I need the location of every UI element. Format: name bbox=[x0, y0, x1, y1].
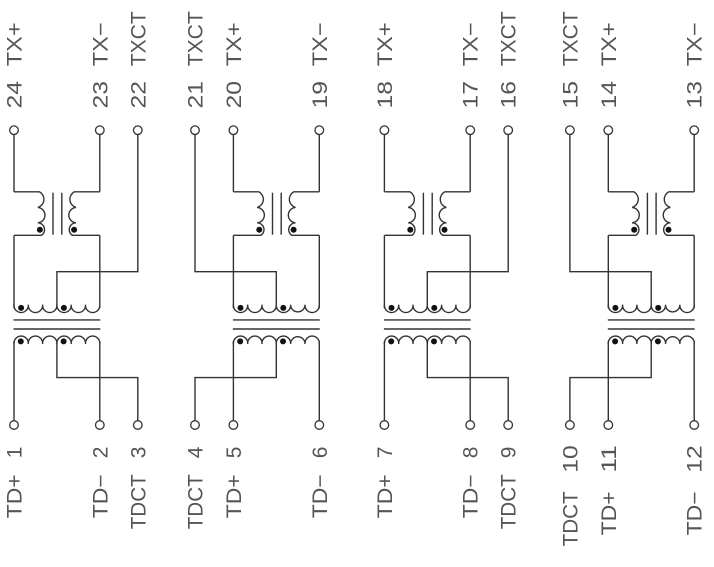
wire TXCT pin 21 to autotransformer center tap bbox=[195, 135, 276, 308]
choke lower row polarity dot (left half) bbox=[237, 338, 243, 344]
choke lower winding row bbox=[608, 336, 694, 344]
wire TXCT pin 16 to autotransformer center tap bbox=[427, 135, 508, 308]
svg-text:TD+: TD+ bbox=[223, 474, 246, 518]
pin 10 terminal bbox=[566, 421, 575, 430]
transformer T2 core line 1 bbox=[272, 193, 274, 235]
svg-text:1: 1 bbox=[4, 447, 27, 459]
svg-text:TX+: TX+ bbox=[598, 22, 621, 66]
wire pin 13 (TX-) to transformer primary top-right bbox=[693, 135, 695, 192]
svg-text:TD+: TD+ bbox=[374, 474, 397, 518]
svg-text:TD−: TD− bbox=[89, 474, 112, 518]
transformer T2 core line 2 bbox=[280, 193, 282, 235]
wire choke lower row left end to pin 5 (TD+) bbox=[232, 341, 234, 420]
autotransformer/choke upper winding row bbox=[384, 305, 470, 313]
svg-text:TX+: TX+ bbox=[223, 22, 246, 66]
svg-text:TX−: TX− bbox=[684, 22, 707, 66]
svg-text:21: 21 bbox=[185, 81, 208, 109]
svg-text:5: 5 bbox=[223, 447, 246, 459]
wire choke lower row left end to pin 7 (TD+) bbox=[383, 341, 385, 420]
svg-text:7: 7 bbox=[374, 447, 397, 459]
wire transformer bottom-left to choke top row left end bbox=[13, 235, 15, 308]
wire transformer bottom-right to choke top row right end bbox=[318, 235, 320, 308]
wire lower center tap to TDCT pin 3 bbox=[57, 342, 138, 420]
svg-text:TDCT: TDCT bbox=[559, 491, 582, 546]
autotransformer/choke upper winding row bbox=[233, 305, 319, 313]
choke core line 1 bbox=[233, 319, 320, 321]
wire transformer bottom-left to choke top row left end bbox=[232, 235, 234, 308]
choke core line 2 bbox=[608, 328, 695, 330]
pin 9 terminal bbox=[504, 421, 513, 430]
choke upper row polarity dot (left half) bbox=[238, 305, 244, 311]
pin 13 terminal bbox=[690, 126, 699, 135]
wire transformer bottom-right to choke top row right end bbox=[99, 235, 101, 308]
choke core line 2 bbox=[14, 328, 101, 330]
transformer T1 primary right winding bbox=[69, 192, 100, 236]
svg-text:8: 8 bbox=[460, 447, 483, 459]
svg-text:3: 3 bbox=[127, 447, 150, 459]
choke lower row polarity dot (left half) bbox=[18, 338, 24, 344]
svg-text:TD+: TD+ bbox=[598, 491, 621, 535]
pin 7 terminal bbox=[380, 421, 389, 430]
svg-text:16: 16 bbox=[498, 81, 521, 109]
pin 4 terminal bbox=[191, 421, 200, 430]
svg-text:TD+: TD+ bbox=[4, 474, 27, 518]
wire lower center tap to TDCT pin 4 bbox=[195, 342, 276, 420]
transformer T4 primary right winding bbox=[663, 192, 694, 236]
choke core line 2 bbox=[233, 328, 320, 330]
wire transformer bottom-left to choke top row left end bbox=[383, 235, 385, 308]
pin 18 terminal bbox=[380, 126, 389, 135]
choke lower row polarity dot (left half) bbox=[612, 338, 618, 344]
transformer T3 right winding polarity dot bbox=[442, 227, 448, 233]
wire choke lower row right end to pin 12 (TD-) bbox=[693, 341, 695, 420]
pin 14 terminal bbox=[604, 126, 613, 135]
svg-text:2: 2 bbox=[89, 447, 112, 459]
choke core line 1 bbox=[608, 319, 695, 321]
svg-text:TDCT: TDCT bbox=[498, 474, 521, 529]
svg-text:11: 11 bbox=[598, 445, 621, 473]
wire pin 23 (TX-) to transformer primary top-right bbox=[99, 135, 101, 192]
choke lower row polarity dot (right half) bbox=[61, 338, 67, 344]
wire transformer bottom-right to choke top row right end bbox=[693, 235, 695, 308]
svg-text:18: 18 bbox=[374, 81, 397, 109]
choke upper row polarity dot (left half) bbox=[18, 305, 24, 311]
svg-text:TD−: TD− bbox=[460, 474, 483, 518]
choke upper row polarity dot (right half) bbox=[655, 305, 661, 311]
wire TXCT pin 22 to autotransformer center tap bbox=[57, 135, 138, 308]
svg-text:22: 22 bbox=[127, 81, 150, 109]
svg-text:20: 20 bbox=[223, 81, 246, 109]
transformer T4 right winding polarity dot bbox=[666, 227, 672, 233]
transformer T2 right winding polarity dot bbox=[291, 227, 297, 233]
choke core line 1 bbox=[384, 319, 471, 321]
transformer T2 primary left winding bbox=[233, 192, 264, 236]
pin 6 terminal bbox=[315, 421, 324, 430]
pin 23 terminal bbox=[96, 126, 105, 135]
svg-text:TDCT: TDCT bbox=[127, 474, 150, 529]
svg-text:23: 23 bbox=[89, 81, 112, 109]
transformer T4 core line 2 bbox=[655, 193, 657, 235]
pin 21 terminal bbox=[191, 126, 200, 135]
transformer T3 left winding polarity dot bbox=[407, 227, 413, 233]
svg-text:TX−: TX− bbox=[460, 22, 483, 66]
pin 24 terminal bbox=[10, 126, 19, 135]
autotransformer/choke upper winding row bbox=[14, 305, 100, 313]
pin 2 terminal bbox=[96, 421, 105, 430]
transformer T4 core line 1 bbox=[646, 193, 648, 235]
transformer T2 primary right winding bbox=[288, 192, 319, 236]
svg-text:24: 24 bbox=[4, 81, 27, 109]
pin 11 terminal bbox=[604, 421, 613, 430]
choke lower row polarity dot (right half) bbox=[280, 338, 286, 344]
wire choke lower row right end to pin 6 (TD-) bbox=[318, 341, 320, 420]
wire lower center tap to TDCT pin 10 bbox=[570, 342, 651, 420]
choke lower winding row bbox=[14, 336, 100, 344]
wire lower center tap to TDCT pin 9 bbox=[427, 342, 508, 420]
pin 1 terminal bbox=[10, 421, 19, 430]
wire transformer bottom-right to choke top row right end bbox=[469, 235, 471, 308]
wire pin 17 (TX-) to transformer primary top-right bbox=[469, 135, 471, 192]
choke core line 1 bbox=[14, 319, 101, 321]
wire choke lower row right end to pin 2 (TD-) bbox=[99, 341, 101, 420]
svg-text:TXCT: TXCT bbox=[559, 11, 582, 66]
transformer T3 primary right winding bbox=[439, 192, 470, 236]
choke lower row polarity dot (right half) bbox=[655, 338, 661, 344]
pin 5 terminal bbox=[229, 421, 238, 430]
pin 12 terminal bbox=[690, 421, 699, 430]
wire TXCT pin 15 to autotransformer center tap bbox=[570, 135, 651, 308]
svg-text:TX+: TX+ bbox=[374, 22, 397, 66]
svg-text:TX−: TX− bbox=[89, 22, 112, 66]
transformer T1 core line 1 bbox=[52, 193, 54, 235]
svg-text:TXCT: TXCT bbox=[127, 11, 150, 66]
pin 20 terminal bbox=[229, 126, 238, 135]
pin 22 terminal bbox=[134, 126, 143, 135]
choke lower row polarity dot (left half) bbox=[388, 338, 394, 344]
svg-text:TXCT: TXCT bbox=[498, 11, 521, 66]
transformer T1 left winding polarity dot bbox=[37, 227, 43, 233]
pin 3 terminal bbox=[134, 421, 143, 430]
svg-text:6: 6 bbox=[309, 447, 332, 459]
wire pin 14 (TX+) to transformer primary top-left bbox=[607, 135, 609, 192]
svg-text:TD−: TD− bbox=[684, 491, 707, 535]
pin 17 terminal bbox=[466, 126, 475, 135]
svg-text:12: 12 bbox=[684, 445, 707, 473]
pin 8 terminal bbox=[466, 421, 475, 430]
choke upper row polarity dot (left half) bbox=[612, 305, 618, 311]
wire choke lower row left end to pin 11 (TD+) bbox=[607, 341, 609, 420]
wire pin 20 (TX+) to transformer primary top-left bbox=[232, 135, 234, 192]
svg-text:4: 4 bbox=[185, 446, 208, 458]
svg-text:TD−: TD− bbox=[309, 474, 332, 518]
choke upper row polarity dot (left half) bbox=[389, 305, 395, 311]
svg-text:15: 15 bbox=[559, 81, 582, 109]
wire transformer bottom-left to choke top row left end bbox=[607, 235, 609, 308]
transformer T3 core line 2 bbox=[431, 193, 433, 235]
svg-text:13: 13 bbox=[684, 81, 707, 109]
choke upper row polarity dot (right half) bbox=[280, 305, 286, 311]
choke lower row polarity dot (right half) bbox=[431, 338, 437, 344]
transformer T1 core line 2 bbox=[61, 193, 63, 235]
svg-text:10: 10 bbox=[559, 445, 582, 473]
transformer T1 right winding polarity dot bbox=[71, 227, 77, 233]
wire choke lower row left end to pin 1 (TD+) bbox=[13, 341, 15, 420]
svg-text:17: 17 bbox=[460, 81, 483, 109]
svg-text:TDCT: TDCT bbox=[185, 474, 208, 529]
wire pin 24 (TX+) to transformer primary top-left bbox=[13, 135, 15, 192]
wire choke lower row right end to pin 8 (TD-) bbox=[469, 341, 471, 420]
transformer T3 core line 1 bbox=[422, 193, 424, 235]
svg-text:TXCT: TXCT bbox=[185, 11, 208, 66]
pin 15 terminal bbox=[566, 126, 575, 135]
wire pin 18 (TX+) to transformer primary top-left bbox=[383, 135, 385, 192]
svg-text:14: 14 bbox=[598, 81, 621, 109]
transformer T2 left winding polarity dot bbox=[256, 227, 262, 233]
pin 16 terminal bbox=[504, 126, 513, 135]
wire pin 19 (TX-) to transformer primary top-right bbox=[318, 135, 320, 192]
pin 19 terminal bbox=[315, 126, 324, 135]
choke lower winding row bbox=[384, 336, 470, 344]
svg-text:9: 9 bbox=[498, 447, 521, 459]
choke lower winding row bbox=[233, 336, 319, 344]
autotransformer/choke upper winding row bbox=[608, 305, 694, 313]
transformer T3 primary left winding bbox=[384, 192, 415, 236]
choke upper row polarity dot (right half) bbox=[61, 305, 67, 311]
transformer T4 left winding polarity dot bbox=[631, 227, 637, 233]
transformer T4 primary left winding bbox=[608, 192, 639, 236]
svg-text:19: 19 bbox=[309, 81, 332, 109]
transformer T1 primary left winding bbox=[14, 192, 45, 236]
svg-text:TX+: TX+ bbox=[4, 22, 27, 66]
choke upper row polarity dot (right half) bbox=[431, 305, 437, 311]
choke core line 2 bbox=[384, 328, 471, 330]
svg-text:TX−: TX− bbox=[309, 22, 332, 66]
